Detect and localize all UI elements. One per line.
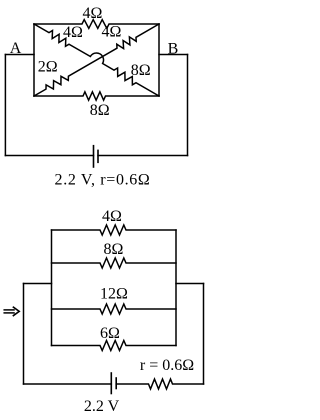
svg-text:4Ω: 4Ω <box>102 208 122 225</box>
right outer wire <box>187 55 189 156</box>
diagonal BL-TR (2ohm,4ohm arms) <box>34 24 159 96</box>
arrow shaft 1 <box>4 309 14 311</box>
svg-text:4Ω: 4Ω <box>102 24 122 41</box>
left outer bus <box>23 284 25 385</box>
svg-text:B: B <box>168 41 179 58</box>
svg-text:A: A <box>10 40 22 57</box>
right connector <box>176 283 204 285</box>
svg-text:12Ω: 12Ω <box>100 285 128 302</box>
bottom wire left <box>5 155 93 157</box>
svg-text:2.2 V, r=0.6Ω: 2.2 V, r=0.6Ω <box>55 171 151 188</box>
left connector <box>24 283 52 285</box>
svg-text:2Ω: 2Ω <box>38 59 58 76</box>
bottom wire + resistor r <box>116 379 203 389</box>
left edge <box>33 24 35 96</box>
svg-text:4Ω: 4Ω <box>63 24 83 41</box>
battery 2 long plate <box>110 373 112 394</box>
svg-text:8Ω: 8Ω <box>131 62 151 79</box>
battery 2 short plate <box>115 378 117 389</box>
svg-text:8Ω: 8Ω <box>90 102 110 119</box>
right edge <box>158 24 160 96</box>
arrow head <box>13 307 19 315</box>
resistor 8ohm bottom edge <box>34 92 159 100</box>
left bus <box>51 230 53 346</box>
right outer bus <box>203 284 205 385</box>
arrow shaft 2 <box>4 312 14 314</box>
wire node B <box>159 54 188 56</box>
resistor 8ohm row <box>52 258 177 268</box>
battery 1 short plate <box>97 150 99 162</box>
svg-text:r = 0.6Ω: r = 0.6Ω <box>140 357 194 374</box>
svg-text:2.2 V: 2.2 V <box>84 398 120 415</box>
resistor 6ohm row <box>52 341 177 351</box>
resistor 12ohm row <box>52 304 177 314</box>
bottom wire right <box>98 155 188 157</box>
right bus <box>175 230 177 346</box>
svg-text:8Ω: 8Ω <box>104 241 124 258</box>
wire node A <box>5 54 34 56</box>
bottom wire left <box>24 383 112 385</box>
resistor 4ohm top edge <box>34 20 159 29</box>
resistor 4ohm row <box>52 225 177 235</box>
battery 1 long plate <box>93 146 95 167</box>
diagonal TL-BR with hop (4ohm,8ohm arms) <box>34 24 159 96</box>
svg-text:6Ω: 6Ω <box>100 325 120 342</box>
left outer wire <box>4 55 6 156</box>
svg-text:4Ω: 4Ω <box>83 5 103 22</box>
